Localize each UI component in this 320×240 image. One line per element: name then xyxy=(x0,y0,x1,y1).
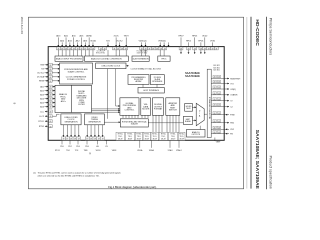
svg-text:48: 48 xyxy=(49,77,51,79)
svg-text:GENERATION: GENERATION xyxy=(64,120,78,123)
svg-text:XCLK: XCLK xyxy=(114,36,120,38)
svg-text:AI25: AI25 xyxy=(79,35,83,38)
svg-text:CLOCK SIGNALS TO ALL BLOCKS: CLOCK SIGNALS TO ALL BLOCKS xyxy=(131,67,162,70)
svg-text:VREF: VREF xyxy=(216,142,221,144)
svg-text:CONTROL: CONTROL xyxy=(125,110,136,112)
svg-text:I2C SDA: I2C SDA xyxy=(37,76,45,79)
svg-text:VDD2: VDD2 xyxy=(202,36,207,38)
svg-text:AI12: AI12 xyxy=(76,40,80,43)
svg-text:48,49: 48,49 xyxy=(152,139,157,141)
svg-text:FILTER: FILTER xyxy=(78,104,85,106)
svg-text:ANALOG-TO-DIGITAL CONVERSION: ANALOG-TO-DIGITAL CONVERSION xyxy=(91,57,122,60)
svg-text:48: 48 xyxy=(214,132,216,134)
svg-text:48: 48 xyxy=(214,77,216,79)
svg-text:TRDY: TRDY xyxy=(124,36,130,38)
svg-text:I2C SCL: I2C SCL xyxy=(37,73,44,75)
svg-text:48: 48 xyxy=(74,139,76,141)
svg-text:48: 48 xyxy=(102,139,104,141)
svg-text:48: 48 xyxy=(218,99,220,101)
svg-text:48,49: 48,49 xyxy=(137,139,142,141)
svg-text:AI23: AI23 xyxy=(56,35,60,38)
svg-text:48: 48 xyxy=(156,49,158,51)
svg-text:Fig.1 Block diagram (videodec: Fig.1 Block diagram (videodecoder part). xyxy=(108,185,157,189)
svg-text:48: 48 xyxy=(215,49,217,51)
svg-text:48,49: 48,49 xyxy=(145,139,150,141)
svg-text:POWER CONTROL: POWER CONTROL xyxy=(67,79,86,81)
svg-text:48,49: 48,49 xyxy=(161,139,166,141)
svg-text:SCALER: SCALER xyxy=(131,123,139,126)
svg-text:48: 48 xyxy=(49,69,51,71)
svg-text:PD2: PD2 xyxy=(68,146,72,148)
svg-text:48: 48 xyxy=(49,112,51,114)
svg-text:(1): (1) xyxy=(33,173,36,175)
svg-text:48: 48 xyxy=(90,139,92,141)
svg-text:48: 48 xyxy=(214,82,216,84)
svg-text:which are selected via the bit: which are selected via the bits RTSE0 an… xyxy=(38,174,100,177)
svg-text:9: 9 xyxy=(12,103,16,105)
svg-text:HS2: HS2 xyxy=(230,123,234,125)
svg-text:SWITCH: SWITCH xyxy=(169,110,177,112)
svg-text:XTALO: XTALO xyxy=(176,149,182,152)
svg-text:48: 48 xyxy=(218,132,220,134)
svg-text:SAA7108AE; SAA7109AE: SAA7108AE; SAA7109AE xyxy=(254,130,260,190)
svg-text:48: 48 xyxy=(214,87,216,89)
svg-text:48: 48 xyxy=(98,139,100,141)
svg-text:AI16: AI16 xyxy=(40,105,44,108)
svg-text:The pins RTS0 and RTS1 can be: The pins RTS0 and RTS1 can be used as ou… xyxy=(38,172,121,175)
svg-text:HD OUTPUT INTERFACE: HD OUTPUT INTERFACE xyxy=(208,96,211,119)
svg-text:AI22: AI22 xyxy=(68,40,72,43)
svg-text:48: 48 xyxy=(218,127,220,129)
svg-text:HPD5: HPD5 xyxy=(186,41,191,43)
svg-text:Philips Semiconductors: Philips Semiconductors xyxy=(269,18,273,56)
svg-text:2004 Jun 29: 2004 Jun 29 xyxy=(20,17,24,34)
svg-text:TDO: TDO xyxy=(106,41,111,43)
svg-text:AI24: AI24 xyxy=(60,40,64,43)
svg-text:48,49: 48,49 xyxy=(179,139,184,141)
svg-text:LINE-LOCKED CLOCK: LINE-LOCKED CLOCK xyxy=(102,65,121,67)
svg-text:AGND: AGND xyxy=(86,35,92,38)
svg-text:HPD1: HPD1 xyxy=(198,41,203,43)
svg-text:BLANK: BLANK xyxy=(185,120,192,123)
svg-text:ANALOG INPUT PROCESSING: ANALOG INPUT PROCESSING xyxy=(56,57,82,60)
svg-text:AI21: AI21 xyxy=(64,35,68,38)
svg-text:48: 48 xyxy=(121,49,123,51)
svg-text:48: 48 xyxy=(70,139,72,141)
svg-text:48: 48 xyxy=(218,121,220,123)
svg-text:48: 48 xyxy=(49,116,51,118)
svg-text:VDD3: VDD3 xyxy=(96,150,101,152)
svg-text:48: 48 xyxy=(113,49,115,51)
svg-text:FIFOs: FIFOs xyxy=(161,58,166,60)
svg-text:PD0: PD0 xyxy=(60,146,64,148)
svg-text:48: 48 xyxy=(214,99,216,101)
svg-text:48: 48 xyxy=(125,49,127,51)
svg-text:ADCs: ADCs xyxy=(61,100,66,103)
svg-text:RTS1: RTS1 xyxy=(39,126,45,128)
svg-text:AI15: AI15 xyxy=(40,101,44,104)
svg-text:48: 48 xyxy=(66,139,68,141)
svg-text:PD6: PD6 xyxy=(85,146,89,148)
svg-text:ARRAY: ARRAY xyxy=(135,80,142,83)
svg-text:VDDA: VDDA xyxy=(90,40,96,43)
svg-text:48: 48 xyxy=(49,126,51,128)
svg-text:48: 48 xyxy=(214,121,216,123)
svg-text:HD-CODEC: HD-CODEC xyxy=(254,19,260,46)
svg-text:48: 48 xyxy=(49,95,51,97)
svg-text:VDDA: VDDA xyxy=(137,149,143,152)
svg-text:48: 48 xyxy=(49,99,51,101)
svg-text:VDDD(4): VDDD(4) xyxy=(139,41,147,43)
svg-text:PD4: PD4 xyxy=(76,146,80,148)
svg-text:VSS2: VSS2 xyxy=(210,41,215,43)
svg-text:48: 48 xyxy=(148,49,150,51)
svg-text:OUTPUTS: OUTPUTS xyxy=(191,134,200,136)
svg-text:VSSA: VSSA xyxy=(149,149,155,152)
svg-text:Product specification: Product specification xyxy=(269,156,273,189)
svg-text:RESN: RESN xyxy=(39,81,45,83)
svg-text:48,49: 48,49 xyxy=(118,139,123,141)
svg-text:FORMAT: FORMAT xyxy=(154,107,163,110)
svg-text:(1): (1) xyxy=(89,153,92,155)
svg-text:48: 48 xyxy=(49,91,51,93)
svg-text:AI13: AI13 xyxy=(40,93,44,96)
svg-text:48: 48 xyxy=(94,139,96,141)
svg-text:INTERFACE: INTERFACE xyxy=(152,80,163,83)
svg-text:Y2: Y2 xyxy=(230,101,232,103)
svg-text:C2: C2 xyxy=(230,106,232,108)
svg-text:HOST INTERFACE: HOST INTERFACE xyxy=(143,89,159,92)
svg-text:48: 48 xyxy=(49,121,51,123)
svg-text:48: 48 xyxy=(86,139,88,141)
svg-text:SLICER: SLICER xyxy=(142,108,150,110)
svg-text:48: 48 xyxy=(218,82,220,84)
svg-text:VSSD(4): VSSD(4) xyxy=(158,41,166,43)
svg-text:48: 48 xyxy=(218,77,220,79)
svg-text:XCLK2: XCLK2 xyxy=(117,41,123,43)
svg-text:48: 48 xyxy=(49,103,51,105)
svg-text:RTS0 RTS1: RTS0 RTS1 xyxy=(96,53,105,55)
svg-text:16-BIT EXPANSION: 16-BIT EXPANSION xyxy=(132,57,149,60)
svg-text:SAA7109AE: SAA7109AE xyxy=(185,74,200,78)
svg-text:48: 48 xyxy=(49,87,51,89)
svg-text:TDO: TDO xyxy=(66,150,70,152)
svg-text:48: 48 xyxy=(208,49,210,51)
svg-text:48: 48 xyxy=(218,87,220,89)
svg-text:VS2: VS2 xyxy=(230,129,234,131)
svg-text:GENERATOR: GENERATOR xyxy=(88,120,101,123)
svg-text:RTCO: RTCO xyxy=(38,121,44,123)
svg-text:48: 48 xyxy=(49,73,51,75)
svg-text:48: 48 xyxy=(211,49,213,51)
svg-text:48: 48 xyxy=(218,93,220,95)
svg-text:FSW: FSW xyxy=(230,115,234,117)
svg-text:48: 48 xyxy=(218,113,220,115)
svg-text:HPD7: HPD7 xyxy=(178,36,183,38)
svg-text:48: 48 xyxy=(214,105,216,107)
svg-text:AI11: AI11 xyxy=(72,35,76,38)
svg-text:HPD3: HPD3 xyxy=(192,36,197,38)
svg-text:48,49: 48,49 xyxy=(128,139,133,141)
svg-text:SLAVE CONTROL: SLAVE CONTROL xyxy=(68,70,86,73)
svg-text:CVBS/R: CVBS/R xyxy=(230,95,238,97)
svg-text:8-BIT 27 MHz: 8-BIT 27 MHz xyxy=(137,53,148,55)
svg-text:48: 48 xyxy=(49,81,51,83)
svg-text:AI12: AI12 xyxy=(40,89,44,92)
svg-text:RTCO: RTCO xyxy=(55,150,61,152)
svg-text:AI14: AI14 xyxy=(40,97,44,100)
svg-text:VSS3: VSS3 xyxy=(112,150,117,152)
svg-text:48: 48 xyxy=(49,65,51,67)
svg-text:B24 B21: B24 B21 xyxy=(213,70,220,72)
svg-text:C/B(1): C/B(1) xyxy=(230,89,236,91)
svg-text:48,49: 48,49 xyxy=(171,139,176,141)
svg-text:XTALI: XTALI xyxy=(168,149,173,152)
svg-text:AI26: AI26 xyxy=(83,40,87,43)
svg-text:48: 48 xyxy=(214,93,216,95)
svg-text:48: 48 xyxy=(152,49,154,51)
svg-text:48: 48 xyxy=(117,49,119,51)
svg-text:AI11: AI11 xyxy=(40,85,44,88)
svg-text:48: 48 xyxy=(218,105,220,107)
svg-text:48: 48 xyxy=(214,113,216,115)
svg-text:48: 48 xyxy=(214,127,216,129)
svg-text:48: 48 xyxy=(49,107,51,109)
svg-text:TDI: TDI xyxy=(41,69,44,71)
svg-text:48: 48 xyxy=(62,139,64,141)
svg-text:LLC: LLC xyxy=(40,111,44,113)
svg-text:Y/G: Y/G xyxy=(230,83,234,85)
svg-text:RGB/YPbPr: RGB/YPbPr xyxy=(230,77,240,80)
